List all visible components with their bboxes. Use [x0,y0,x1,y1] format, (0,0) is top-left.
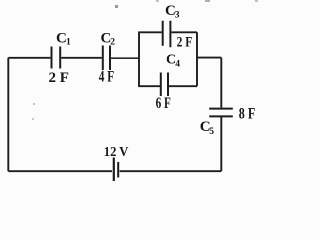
wire right rail lower [220,117,222,171]
capacitor C5 [209,109,233,117]
svg-text:2: 2 [110,38,115,48]
wire top-left segment [8,57,50,59]
svg-text:4: 4 [175,60,180,70]
label C2 [101,30,116,47]
wire box to right rail [197,57,221,59]
svg-text:5: 5 [209,127,214,137]
wire right rail upper [220,58,222,108]
capacitor C2 [103,46,110,71]
value 12 V (battery) [104,145,129,160]
wire C1 to C2 [61,57,102,59]
value 4 F (C2) [99,68,114,85]
value 2 F (C3) [177,34,193,50]
wire C2 to box [111,57,139,59]
svg-text:3: 3 [175,10,180,20]
wire bottom right segment [120,170,222,172]
svg-text:1: 1 [66,38,71,48]
scan speck top right [156,0,258,2]
wire box right edge [196,32,198,86]
wire box bottom edge [138,85,197,87]
label C5 [200,119,215,137]
label C3 [165,3,180,20]
wire left rail [7,58,9,171]
label C1 [56,30,71,47]
wire box left edge [138,32,140,86]
capacitor C4 [161,73,168,97]
value 2 F (C1) [49,70,69,86]
svg-text:2 F: 2 F [49,70,69,86]
label C4 [166,53,180,70]
scan speck left middle [32,103,35,120]
value 6 F (C4) [156,95,171,112]
wire box top edge [138,31,197,33]
wire bottom left segment [8,170,112,172]
capacitor C3 [163,21,171,48]
battery B1 12V [114,158,118,182]
svg-text:8 F: 8 F [239,105,256,122]
svg-text:2 F: 2 F [177,34,193,50]
svg-text:12 V: 12 V [104,145,129,160]
svg-text:4 F: 4 F [99,68,114,85]
capacitor C1 [52,47,61,69]
scan speck top left [115,5,118,8]
svg-text:6 F: 6 F [156,95,171,112]
value 8 F (C5) [239,105,256,122]
